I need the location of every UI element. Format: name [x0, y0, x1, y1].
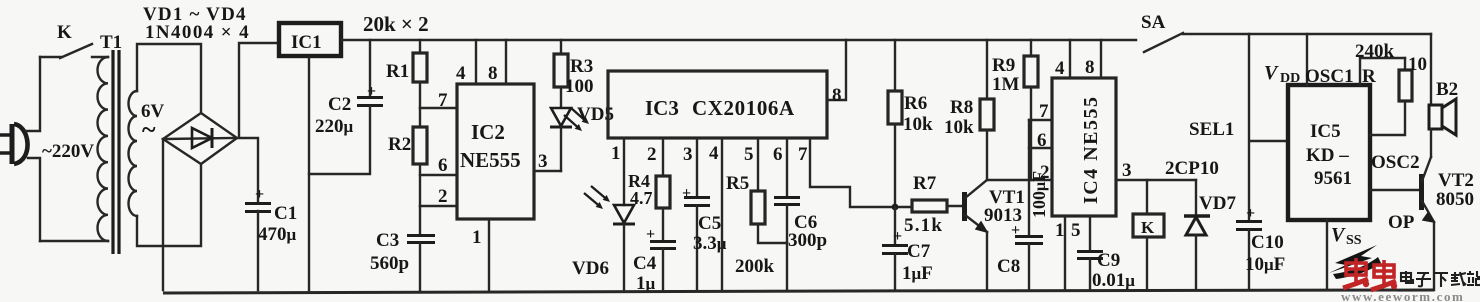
resistor R2 — [413, 108, 427, 206]
capacitor C7 — [882, 207, 908, 290]
IC2 pin 8 — [505, 40, 507, 84]
svg-text:IC4 NE555: IC4 NE555 — [1080, 95, 1102, 204]
wire bridge plus to C1 — [237, 138, 258, 202]
svg-text:4.7: 4.7 — [630, 188, 653, 208]
node junction R6/R7/C7 — [892, 204, 899, 211]
svg-text:7: 7 — [1039, 101, 1049, 122]
svg-text:100μF: 100μF — [1029, 171, 1049, 218]
svg-text:R5: R5 — [726, 173, 749, 194]
svg-text:3: 3 — [1122, 160, 1132, 181]
IC4 pin 4 — [1069, 40, 1071, 78]
resistor R9 — [1024, 40, 1038, 180]
svg-text:R7: R7 — [913, 173, 937, 194]
op IC2 NE555 box — [457, 84, 534, 219]
switch SA — [1144, 33, 1183, 52]
watermark arrow — [1329, 245, 1377, 273]
svg-text:R3: R3 — [570, 56, 593, 77]
svg-text:VT2: VT2 — [1438, 170, 1474, 191]
svg-text:C1: C1 — [274, 203, 297, 224]
VDD pin wire — [1306, 34, 1308, 85]
op IC3 CX20106A box — [608, 71, 827, 138]
svg-text:1: 1 — [1055, 220, 1065, 241]
svg-text:7: 7 — [798, 144, 808, 165]
svg-text:20k × 2: 20k × 2 — [363, 12, 429, 36]
IC3 pin 3 / capacitor C5 — [682, 138, 710, 290]
supply rail after SA — [1183, 33, 1431, 35]
resistor R8 — [980, 40, 994, 180]
svg-text:5: 5 — [1071, 220, 1081, 241]
IC4 pin 6 wire — [1029, 147, 1052, 149]
IC4 pin 8 — [1100, 40, 1102, 78]
svg-text:300p: 300p — [788, 230, 827, 251]
svg-text:200k: 200k — [735, 256, 775, 277]
wire VT1 collector to IC4 pin2 — [987, 179, 1052, 181]
svg-text:2: 2 — [647, 144, 657, 165]
svg-text:10k: 10k — [944, 117, 974, 138]
IC3 pin 1 / photodiode VD6 — [584, 138, 635, 290]
speaker B2 — [1429, 99, 1456, 157]
svg-text:R1: R1 — [386, 61, 409, 82]
svg-text:5.1k: 5.1k — [904, 215, 943, 236]
svg-text:SA: SA — [1141, 12, 1166, 33]
svg-text:C8: C8 — [997, 256, 1020, 277]
svg-text:1M: 1M — [992, 74, 1020, 95]
svg-text:470μ: 470μ — [258, 224, 297, 245]
IC3 pin 8 wire — [827, 40, 846, 100]
svg-text:www.eeworm.com: www.eeworm.com — [1341, 289, 1464, 302]
IC3 pin 2 / resistor R4 — [656, 138, 670, 240]
svg-text:C5: C5 — [698, 213, 721, 234]
svg-text:V: V — [1264, 62, 1279, 84]
IC1 regulator box — [279, 23, 341, 56]
svg-text:CX20106A: CX20106A — [692, 96, 795, 120]
svg-text:5: 5 — [744, 144, 754, 165]
wire IC1 ground — [308, 58, 310, 290]
transformer core — [113, 50, 119, 254]
svg-text:560p: 560p — [370, 253, 409, 274]
svg-text:4: 4 — [456, 63, 466, 84]
resistor R6 — [888, 40, 902, 207]
OP pin wire — [1370, 189, 1419, 191]
svg-text:T1: T1 — [100, 32, 122, 53]
svg-text:~220V: ~220V — [42, 141, 94, 162]
svg-text:R6: R6 — [904, 93, 927, 114]
capacitor C3 — [407, 206, 435, 290]
IC3 pin 4 wire — [721, 138, 723, 290]
svg-text:K: K — [57, 22, 72, 43]
svg-text:OSC2: OSC2 — [1371, 152, 1420, 173]
svg-text:4: 4 — [1055, 58, 1065, 79]
svg-text:R9: R9 — [992, 55, 1015, 76]
VSS pin wire — [1326, 220, 1328, 290]
svg-text:0.01μ: 0.01μ — [1092, 270, 1135, 291]
svg-text:IC3: IC3 — [645, 96, 679, 120]
transistor VT2 8050 — [1422, 157, 1435, 290]
svg-text:V: V — [1331, 224, 1346, 246]
svg-text:6: 6 — [438, 155, 448, 176]
IC4 pin 7 wire — [1029, 119, 1052, 121]
svg-text:6: 6 — [1037, 130, 1047, 151]
IC3 pin 6 / capacitor C6 — [774, 138, 800, 290]
svg-text:SEL1: SEL1 — [1189, 119, 1234, 140]
svg-text:R: R — [1362, 66, 1376, 87]
svg-text:3: 3 — [683, 144, 693, 165]
IC3 pin 7 wire — [810, 138, 912, 207]
OSC1 pin wire — [1360, 58, 1405, 85]
svg-text:+: + — [646, 226, 655, 243]
svg-text:4: 4 — [709, 143, 719, 164]
plug P1 — [0, 124, 28, 164]
IC2 pin 4 — [475, 40, 477, 84]
svg-text:C4: C4 — [633, 253, 657, 274]
svg-text:IC5: IC5 — [1310, 121, 1341, 142]
IC2 pin 3 wire — [534, 170, 561, 172]
resistor R1 — [413, 40, 427, 108]
resistor 240k — [1370, 58, 1412, 135]
svg-text:+: + — [682, 185, 691, 202]
svg-text:10μF: 10μF — [1245, 254, 1285, 275]
svg-text:+: + — [1011, 222, 1020, 239]
capacitor C2 — [309, 40, 383, 174]
watermark site name dianzi xiazaizhan — [1401, 271, 1480, 287]
svg-text:10k: 10k — [903, 114, 933, 135]
svg-text:1: 1 — [611, 143, 621, 164]
svg-text:IC1: IC1 — [291, 32, 322, 53]
svg-text:1μF: 1μF — [902, 263, 933, 284]
watermark chong chong logo — [1343, 258, 1369, 288]
svg-text:C9: C9 — [1097, 250, 1120, 271]
svg-text:2CP10: 2CP10 — [1165, 158, 1219, 179]
svg-text:+: + — [1246, 205, 1255, 222]
svg-text:SS: SS — [1346, 233, 1362, 248]
svg-text:K: K — [1141, 218, 1155, 237]
svg-text:R2: R2 — [388, 134, 411, 155]
bridge inner diode — [166, 128, 234, 148]
svg-text:VD7: VD7 — [1199, 193, 1236, 214]
relay K — [1133, 180, 1164, 290]
wire bridge minus to ground rail — [162, 139, 164, 290]
wire SEL1 / C10 branch — [1249, 34, 1288, 220]
capacitor C1 — [245, 186, 271, 290]
wire secondary to bridge AC bottom — [137, 164, 201, 246]
wire primary bottom — [40, 240, 108, 242]
resistor R7 — [912, 200, 962, 212]
svg-text:~: ~ — [142, 115, 156, 144]
svg-text:R8: R8 — [950, 97, 973, 118]
svg-text:C3: C3 — [376, 230, 399, 251]
wire rail to speaker — [1430, 34, 1432, 105]
svg-text:+: + — [893, 228, 902, 245]
svg-text:B2: B2 — [1436, 79, 1458, 100]
resistor R3 — [554, 40, 568, 87]
svg-text:7: 7 — [438, 90, 448, 111]
capacitor C10 — [1236, 205, 1262, 290]
svg-text:6: 6 — [773, 144, 783, 165]
svg-text:DD: DD — [1280, 71, 1300, 86]
IC4 pin 1 wire — [1064, 216, 1066, 290]
diode VD7 — [1184, 180, 1210, 290]
IC3 pin 5 / resistor R5 — [751, 138, 787, 243]
svg-text:1: 1 — [472, 227, 482, 248]
IC4 pin 3 wire — [1116, 179, 1196, 181]
wire pin2 IC2 — [420, 205, 457, 207]
capacitor C8 100uF — [1011, 120, 1043, 290]
svg-text:10: 10 — [1408, 54, 1427, 75]
svg-text:2: 2 — [438, 186, 448, 207]
svg-text:NE555: NE555 — [460, 148, 521, 172]
svg-text:8050: 8050 — [1436, 189, 1474, 210]
wire plug to loop — [26, 57, 40, 241]
capacitor C4 — [646, 226, 676, 290]
svg-text:3: 3 — [538, 151, 548, 172]
op IC4 NE555 box — [1052, 78, 1116, 216]
svg-text:9561: 9561 — [1314, 168, 1352, 189]
svg-text:8: 8 — [832, 85, 842, 106]
svg-text:8: 8 — [488, 63, 498, 84]
svg-text:220μ: 220μ — [315, 116, 354, 137]
svg-text:OSC1: OSC1 — [1305, 66, 1354, 87]
svg-text:C10: C10 — [1251, 232, 1284, 253]
svg-text:+: + — [255, 186, 264, 203]
svg-text:VD6: VD6 — [572, 258, 609, 279]
svg-text:C2: C2 — [328, 94, 351, 115]
svg-text:8: 8 — [1085, 57, 1095, 78]
op IC5 KD-9561 box — [1288, 85, 1370, 220]
svg-text:240k: 240k — [1355, 41, 1395, 62]
svg-text:IC2: IC2 — [471, 120, 505, 144]
svg-text:100: 100 — [565, 76, 594, 97]
switch K — [40, 44, 108, 58]
transformer T1 secondary winding — [129, 91, 138, 216]
bridge rectifier VD1-VD4 diamond — [163, 113, 237, 164]
IC2 pin 1 — [488, 219, 490, 290]
svg-text:1N4004 × 4: 1N4004 × 4 — [145, 22, 250, 43]
svg-text:KD –: KD – — [1306, 145, 1349, 166]
svg-text:OP: OP — [1388, 212, 1415, 233]
wire bridge plus up to IC1 input — [239, 43, 277, 137]
wire secondary to bridge AC top — [137, 44, 201, 113]
IC4 pin 5 / capacitor C9 — [1077, 216, 1103, 290]
transistor VT1 9013 — [965, 180, 988, 290]
LED VD5 — [550, 87, 589, 171]
wire pin6 IC2 — [420, 174, 457, 176]
svg-text:C7: C7 — [907, 241, 931, 262]
wire pin7 IC2 — [420, 107, 457, 109]
transformer T1 primary winding — [98, 57, 109, 241]
top supply rail — [342, 39, 1136, 41]
svg-text:+: + — [367, 83, 376, 100]
ground rail — [163, 290, 1434, 293]
